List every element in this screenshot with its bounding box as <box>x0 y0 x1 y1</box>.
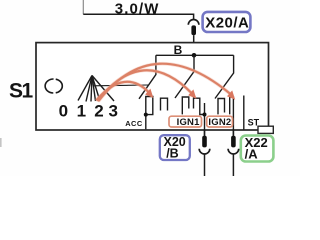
svg-text:IGN1: IGN1 <box>177 117 200 128</box>
svg-text:S1: S1 <box>9 80 34 103</box>
svg-text:3: 3 <box>108 102 117 121</box>
svg-text:2: 2 <box>94 102 103 121</box>
svg-text:/B: /B <box>166 147 179 161</box>
svg-text:1: 1 <box>77 102 86 121</box>
svg-text:B: B <box>174 43 183 57</box>
svg-text:ACC: ACC <box>125 119 143 128</box>
svg-text:0: 0 <box>59 102 68 121</box>
svg-text:3.0/W: 3.0/W <box>115 0 160 17</box>
svg-text:/A: /A <box>245 147 259 162</box>
svg-text:X20/A: X20/A <box>205 14 249 31</box>
svg-text:IGN2: IGN2 <box>208 117 231 128</box>
